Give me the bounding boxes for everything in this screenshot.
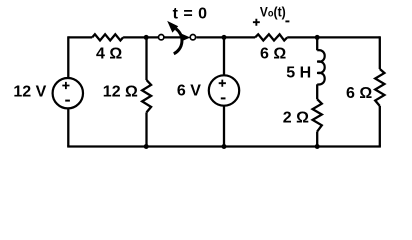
wire bottom <box>67 145 381 147</box>
12V minus sign <box>65 100 70 102</box>
switch right terminal <box>190 35 195 40</box>
resistor 6 ohm (right) <box>375 69 384 106</box>
switch left terminal <box>159 35 164 40</box>
wire top-left segment <box>68 36 92 38</box>
svg-text:6 Ω: 6 Ω <box>260 46 286 63</box>
node junction top of 6V branch <box>222 35 227 40</box>
wire 12 ohm branch lower <box>145 112 147 146</box>
svg-text:5 H: 5 H <box>286 64 311 81</box>
label + of Vo(t) <box>253 19 260 26</box>
node junction bottom of 12 ohm branch <box>144 144 149 149</box>
wire left side upper <box>67 36 69 78</box>
node junction top of 12 ohm branch <box>144 35 149 40</box>
switch closing arrow (arc) <box>174 29 182 54</box>
resistor 6 ohm (top) <box>255 34 287 40</box>
node junction bottom of 6V branch <box>222 144 227 149</box>
6V plus sign <box>219 80 226 87</box>
wire top middle (resistor to switch) <box>123 36 158 38</box>
wire 5H branch upper <box>316 37 318 50</box>
wire right side upper <box>379 36 381 69</box>
svg-text:12 V: 12 V <box>13 84 46 101</box>
resistor 4 ohm (top) <box>92 34 123 40</box>
svg-text:2 Ω: 2 Ω <box>283 110 309 127</box>
svg-text:4 Ω: 4 Ω <box>96 46 122 63</box>
wire between 5H and 2 ohm <box>316 84 318 99</box>
svg-text:Vo(t): Vo(t) <box>260 4 286 20</box>
12V plus sign <box>62 82 69 89</box>
wire 6V branch lower <box>223 106 225 146</box>
source 6V circle <box>209 75 239 105</box>
6V minus sign <box>221 97 226 99</box>
svg-text:6 V: 6 V <box>177 83 201 100</box>
wire top (switch to 6 ohm) <box>197 36 256 38</box>
node junction top of 5H branch <box>315 35 320 40</box>
wire top right <box>287 36 380 38</box>
source 12V circle <box>53 78 83 108</box>
inductor 5H <box>317 50 325 84</box>
resistor 2 ohm <box>313 99 322 131</box>
switch moving-contact arrowhead (triangle) <box>181 34 190 42</box>
wire 2 ohm branch lower <box>316 132 318 147</box>
svg-text:12 Ω: 12 Ω <box>103 84 138 101</box>
wire 12 ohm branch upper <box>145 37 147 80</box>
wire left side lower <box>67 109 69 147</box>
switch arc arrowhead <box>167 21 178 33</box>
label - of Vo(t) <box>285 20 289 22</box>
node junction bottom of 5H branch <box>315 144 320 149</box>
wire 6V branch upper <box>223 37 225 75</box>
wire right side lower <box>379 106 381 147</box>
resistor 12 ohm <box>142 80 151 112</box>
wire between switch terminals <box>164 36 183 38</box>
svg-text:6 Ω: 6 Ω <box>346 85 372 102</box>
svg-text:t = 0: t = 0 <box>173 6 208 23</box>
